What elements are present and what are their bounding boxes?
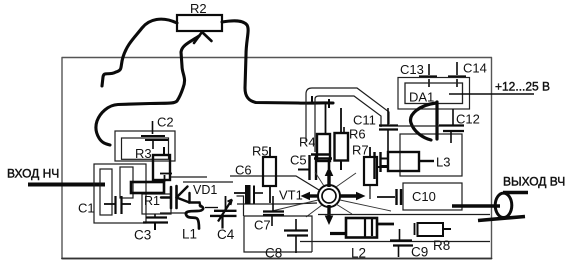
svg-text:C7: C7 — [254, 218, 271, 233]
wire R4 bottom to VT1 — [311, 155, 332, 170]
resistor R5 — [263, 147, 276, 203]
capacitor C10 — [377, 189, 401, 205]
svg-text:ВЫХОД ВЧ: ВЫХОД ВЧ — [503, 175, 565, 189]
svg-text:C11: C11 — [353, 113, 376, 128]
svg-text:DA1: DA1 — [409, 90, 434, 105]
capacitor C1 — [104, 196, 131, 214]
svg-text:C1: C1 — [78, 201, 95, 216]
wire R2 wiper to C2/R3 pad — [96, 36, 199, 145]
svg-text:C10: C10 — [412, 189, 436, 204]
svg-text:R2: R2 — [190, 1, 207, 16]
svg-text:R7: R7 — [352, 143, 369, 158]
wire output — [452, 204, 500, 208]
inductor L3 — [381, 152, 435, 171]
svg-text:C3: C3 — [134, 228, 151, 243]
R2 wiper arrow — [194, 32, 212, 43]
resistor R8 — [415, 223, 452, 236]
capacitor C11 — [379, 108, 398, 152]
svg-text:C12: C12 — [456, 112, 480, 127]
pad trace tube to C11 — [306, 88, 389, 152]
resistor R4 — [317, 104, 330, 161]
capacitor VT1-L3 — [375, 152, 381, 179]
svg-text:C8: C8 — [265, 246, 282, 261]
node above R1 — [160, 174, 172, 183]
wire solder ticks on +12V pad — [312, 96, 329, 108]
svg-text:C6: C6 — [235, 163, 252, 178]
pad outline VD1 — [171, 176, 207, 178]
wire input — [28, 183, 105, 187]
wire R2 left lead — [102, 19, 177, 86]
svg-text:R3: R3 — [135, 146, 152, 161]
capacitor C5 — [298, 155, 316, 180]
wire C11 to C12 — [398, 125, 439, 127]
svg-text:+12...25 В: +12...25 В — [495, 80, 550, 94]
pad box L3 — [400, 134, 462, 210]
svg-text:VD1: VD1 — [193, 183, 217, 197]
svg-text:L3: L3 — [436, 155, 450, 170]
capacitor C2 — [141, 121, 168, 149]
IC DA1 — [398, 78, 470, 110]
trimmer capacitor C4 — [205, 196, 237, 229]
transistor VT1 — [308, 174, 357, 217]
svg-text:R8: R8 — [433, 238, 450, 253]
capacitor C8 — [284, 219, 308, 253]
coax loop — [495, 193, 512, 217]
capacitor C7 — [263, 196, 284, 226]
pad corridor C6..VT1 — [230, 176, 319, 204]
pad box R1 label — [142, 194, 171, 214]
svg-text:VT1: VT1 — [279, 188, 303, 203]
pad box input — [94, 164, 146, 223]
svg-text:ВХОД НЧ: ВХОД НЧ — [7, 167, 59, 181]
resistor R7 — [364, 147, 388, 199]
capacitor C9 — [390, 229, 413, 257]
svg-text:R6: R6 — [349, 127, 366, 142]
wire loop DA1 to L3 — [411, 102, 437, 140]
wire output top — [503, 191, 528, 194]
wire +12V — [449, 93, 534, 95]
inductor L1 — [186, 206, 203, 229]
capacitor C12 — [439, 109, 464, 143]
svg-text:C5: C5 — [290, 153, 307, 168]
svg-text:R1: R1 — [144, 194, 160, 208]
svg-text:C9: C9 — [411, 245, 428, 260]
capacitor C14 — [448, 62, 466, 87]
svg-text:R4: R4 — [299, 135, 316, 150]
pad corner right of C4 — [237, 196, 244, 216]
svg-text:R5: R5 — [252, 144, 269, 159]
svg-text:C14: C14 — [463, 61, 487, 76]
diode VD1 — [161, 186, 201, 208]
resistor R6 — [335, 108, 349, 170]
svg-text:C13: C13 — [400, 62, 424, 77]
svg-text:L2: L2 — [351, 246, 366, 261]
resistor R2 — [177, 1, 222, 31]
capacitor C13 — [419, 64, 437, 87]
pad box C7/C8 — [244, 215, 490, 253]
pad box C2/R3 — [115, 131, 175, 161]
capacitor C6 — [234, 186, 263, 204]
svg-text:L1: L1 — [182, 227, 197, 242]
wire output braid — [478, 217, 525, 221]
inductor L2 — [330, 218, 394, 238]
board outline — [62, 58, 492, 259]
capacitor C3 — [143, 214, 168, 230]
wire R2 right lead to +12V rail pad — [222, 21, 333, 103]
resistor R3 — [153, 147, 170, 180]
svg-text:C4: C4 — [217, 227, 235, 242]
resistor R1 — [131, 182, 164, 193]
svg-text:C2: C2 — [157, 115, 174, 130]
